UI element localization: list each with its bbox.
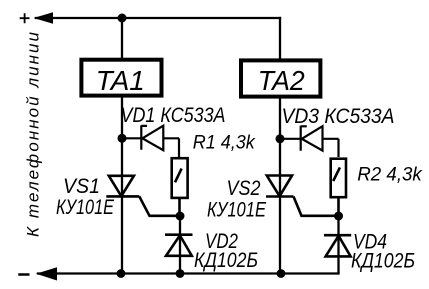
node junction R2 / gate VS2 / VD4 [334, 212, 343, 221]
wire bottom bus [38, 272, 339, 274]
node junction R1 / gate VS1 / VD2 [176, 212, 185, 221]
svg-text:R2 4,3k: R2 4,3k [357, 164, 423, 185]
wire left branch vertical (TA1 to bottom bus) [121, 97, 123, 274]
wire top bus [36, 17, 280, 19]
wire right branch vertical (TA2 to bottom bus) [279, 98, 281, 274]
device TA2 [241, 60, 320, 96]
node junction bottom bus / left vertical [117, 269, 126, 278]
diode VD2 [165, 215, 193, 274]
node junction right vertical / VD3 [276, 134, 285, 143]
svg-text:VD1 КС533А: VD1 КС533А [121, 104, 226, 127]
thyristor VS1 [106, 176, 176, 216]
svg-text:К телефонной линии: К телефонной линии [24, 31, 43, 237]
arrow to line, top (+) [34, 12, 54, 23]
resistor R1 [172, 158, 188, 216]
label + [20, 13, 30, 23]
arrow to line, bottom (-) [36, 267, 57, 280]
svg-text:VD3 КС533А: VD3 КС533А [282, 105, 395, 128]
zener diode VD3 [280, 126, 339, 157]
svg-text:VS1: VS1 [63, 175, 100, 198]
wire TA2 drop from top bus [279, 18, 281, 61]
resistor R2 [331, 159, 346, 216]
svg-text:VS2: VS2 [227, 177, 261, 200]
device TA1 [81, 60, 161, 96]
svg-text:КД102Б: КД102Б [351, 250, 415, 273]
wire TA1 drop from top bus [121, 18, 123, 60]
node junction left vertical / VD1 [118, 134, 127, 143]
node junction bottom bus / VD2 [176, 269, 185, 278]
svg-text:КД102Б: КД102Б [194, 249, 258, 272]
zener diode VD1 [122, 125, 179, 158]
node junction bottom bus / right vertical [277, 269, 286, 278]
thyristor VS2 [266, 176, 335, 216]
diode VD4 [324, 216, 351, 274]
svg-text:КУ101Е: КУ101Е [207, 199, 267, 222]
svg-text:R1 4,3k: R1 4,3k [193, 132, 256, 153]
svg-text:TA2: TA2 [258, 65, 305, 96]
svg-text:КУ101Е: КУ101Е [56, 196, 115, 219]
node junction top bus / TA1 [118, 14, 127, 23]
svg-text:TA1: TA1 [96, 65, 145, 96]
label - [18, 273, 29, 276]
